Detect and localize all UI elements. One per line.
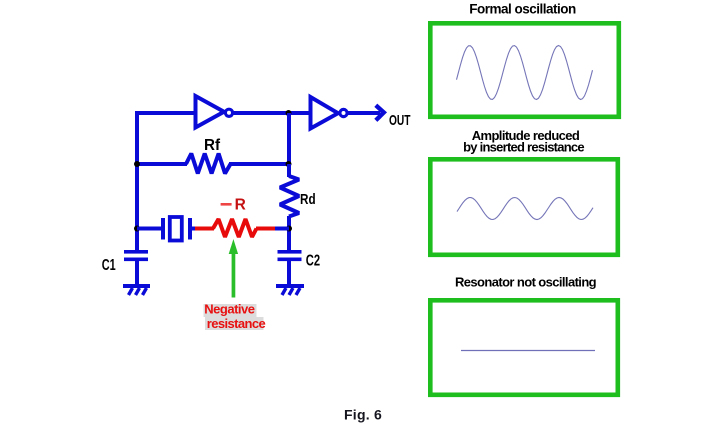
crystal X1 left plate: [161, 218, 165, 240]
op-amp U1 (inverter 1): [196, 96, 225, 128]
label: Formal oscillation (panel 1 title): [469, 2, 576, 17]
wire: blue lead into node D: [275, 227, 289, 231]
capacitor C2 top plate: [278, 250, 302, 254]
wire: left vertical net (node A rail): [135, 111, 139, 252]
green pointer arrow to -R: [229, 239, 238, 298]
wire: C1 to ground: [135, 261, 139, 285]
capacitor C1 top plate: [124, 250, 148, 254]
svg-text:Fig. 6: Fig. 6: [344, 407, 382, 423]
wire: left rail to crystal X1: [137, 227, 161, 231]
node D junction dot (Rd / -R / C2): [286, 226, 292, 232]
svg-text:Resonator not oscillating: Resonator not oscillating: [455, 275, 597, 290]
label Rf: [204, 137, 221, 154]
label: Amplitude reduced by inserted resistance (panel 2 title): [463, 128, 584, 155]
label OUT: [389, 111, 411, 129]
ground GND2: [276, 284, 304, 295]
svg-text:C1: C1: [102, 256, 116, 274]
node B junction dot: [286, 110, 292, 116]
label -R: [221, 197, 246, 214]
label: Resonator not oscillating (panel 3 title): [455, 275, 597, 290]
svg-text:C2: C2: [306, 250, 321, 269]
wire: node B vertical drop to Rf net: [287, 113, 291, 165]
arrowhead OUT: [376, 105, 384, 120]
label Negative resistance (line 1): [204, 302, 257, 318]
svg-text:resistance: resistance: [207, 316, 266, 331]
wire: node C to resistor Rd: [287, 164, 291, 177]
svg-text:R: R: [235, 197, 246, 214]
svg-text:OUT: OUT: [389, 111, 411, 129]
waveform: flat line (not oscillating): [461, 350, 595, 352]
capacitor C2 bottom plate: [278, 258, 302, 262]
label C2: [306, 250, 321, 269]
svg-text:Rf: Rf: [204, 137, 221, 154]
op-amp U2 (inverter 2): [311, 97, 339, 129]
ground GND1: [123, 284, 150, 295]
waveform: formal oscillation sine: [457, 46, 593, 100]
node C junction dot (Rf / Rd): [286, 161, 292, 167]
waveform: reduced amplitude sine: [457, 198, 593, 220]
wire: Rf horizontal net: [135, 162, 289, 166]
panel 2 frame (green box): [430, 159, 618, 255]
panel 3 frame (green box): [430, 300, 618, 395]
crystal X1 body: [170, 217, 182, 241]
wire: Rd bottom to node D: [287, 216, 291, 252]
wire (red lead): crystal to -R zigzag: [195, 227, 214, 231]
node A3 junction dot (left rail / crystal): [134, 226, 140, 232]
label Negative resistance (line 2): [205, 316, 265, 331]
crystal X1 right plate: [188, 218, 192, 240]
resistor Rd: [280, 176, 299, 217]
inverter U2 output bubble: [340, 109, 347, 116]
svg-text:Negative: Negative: [204, 302, 254, 317]
capacitor C1 bottom plate: [124, 258, 148, 262]
svg-text:Rd: Rd: [300, 191, 316, 208]
node A2 junction dot (left rail / Rf): [134, 161, 140, 167]
inverter U1 output bubble: [225, 109, 232, 116]
wire (red lead): -R zigzag to node D: [256, 227, 275, 231]
wire: U2 output to OUT arrow: [348, 111, 380, 115]
label C1: [102, 256, 116, 274]
label Rd: [300, 191, 316, 208]
wire: crystal X1 to resistor -R: [192, 227, 196, 231]
wire: U1 output to U2 input: [233, 111, 310, 115]
wire: top horizontal net from node A to inverter U1 input: [135, 111, 195, 115]
resistor Rf: [186, 154, 231, 174]
caption Fig. 6: [344, 407, 382, 423]
svg-text:by inserted resistance: by inserted resistance: [463, 140, 584, 155]
wire: C2 to ground: [287, 261, 291, 285]
resistor -R (negative resistance): [213, 219, 257, 237]
svg-text:Formal oscillation: Formal oscillation: [469, 2, 576, 17]
panel 1 frame (green box): [430, 23, 619, 117]
